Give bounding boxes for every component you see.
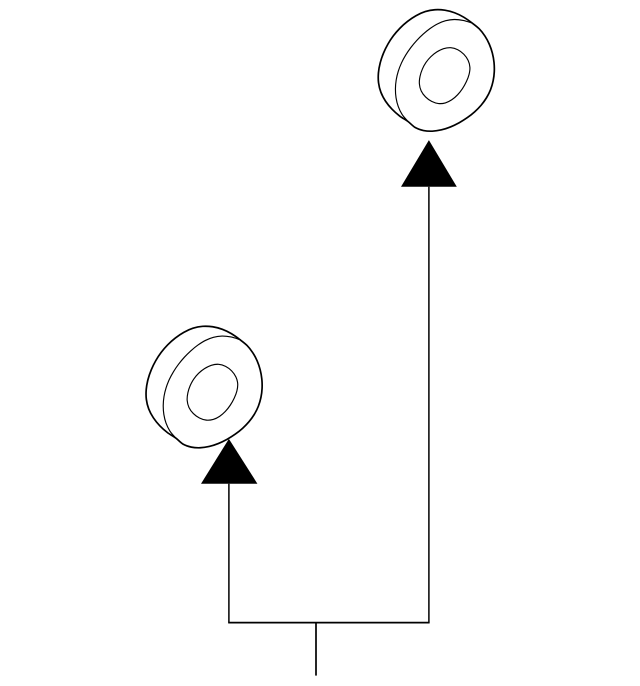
grommet upper right: rim inner edge (395, 19, 472, 121)
arrow to lower-left grommet (201, 439, 257, 484)
wire: left vertical leader (228, 484, 230, 623)
grommet lower left: rim inner edge (163, 336, 240, 438)
grommet upper right: outer silhouette (378, 10, 494, 132)
wire: bottom center stem (315, 623, 317, 676)
grommet upper right: center hole (419, 48, 470, 104)
wire: right vertical leader (428, 187, 430, 623)
grommet lower left: center hole (187, 364, 238, 420)
wire: bottom horizontal bracket (228, 622, 429, 624)
arrow to upper-right grommet (401, 140, 457, 187)
grommet lower left: outer silhouette (146, 326, 262, 448)
